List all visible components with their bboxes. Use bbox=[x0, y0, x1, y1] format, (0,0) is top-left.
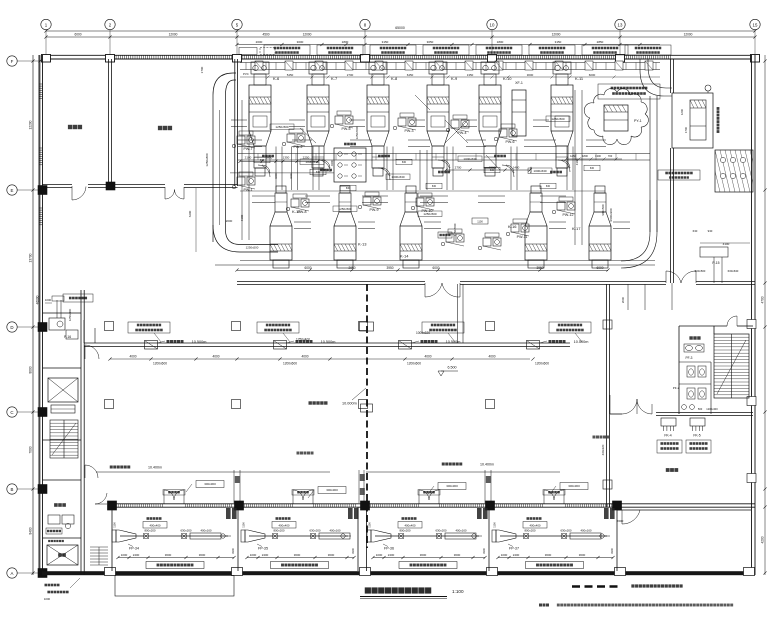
svg-text:2400: 2400 bbox=[513, 553, 520, 557]
svg-text:800x200: 800x200 bbox=[524, 529, 535, 533]
elevator shaft bbox=[48, 378, 78, 402]
svg-text:1350: 1350 bbox=[283, 156, 290, 160]
svg-text:1200x600: 1200x600 bbox=[153, 362, 167, 366]
right block small dims bbox=[627, 284, 629, 310]
svg-text:1850: 1850 bbox=[266, 156, 273, 160]
level mark 6.500 bbox=[438, 371, 444, 376]
svg-text:6000: 6000 bbox=[74, 33, 81, 37]
svg-text:PW-2: PW-2 bbox=[294, 145, 303, 149]
svg-text:PW-4: PW-4 bbox=[458, 131, 467, 135]
svg-text:630: 630 bbox=[546, 185, 551, 188]
vertical duct risers in hall bbox=[241, 100, 243, 240]
smoke shaft leader 10.000m bbox=[309, 401, 328, 404]
svg-text:6200: 6200 bbox=[188, 210, 192, 217]
svg-text:1800: 1800 bbox=[342, 40, 349, 44]
horizontal branch ducts lower bbox=[252, 195, 275, 197]
test room with fan coil FP-37 bbox=[500, 535, 607, 537]
svg-text:1700: 1700 bbox=[200, 66, 204, 73]
svg-text:430x320: 430x320 bbox=[601, 444, 605, 455]
svg-text:1000: 1000 bbox=[376, 553, 383, 557]
svg-text:1000x630: 1000x630 bbox=[463, 157, 477, 161]
svg-text:630x200: 630x200 bbox=[435, 529, 446, 533]
wall south of gas/pump rooms with doors bbox=[42, 184, 72, 186]
svg-text:K-6: K-6 bbox=[273, 76, 280, 81]
diagonal duct connectors bbox=[445, 120, 468, 143]
svg-text:9600x900: 9600x900 bbox=[609, 208, 613, 222]
svg-text:12000: 12000 bbox=[169, 33, 178, 37]
svg-text:1000x630: 1000x630 bbox=[305, 160, 319, 164]
svg-text:F: F bbox=[11, 59, 14, 64]
right block west wall bbox=[606, 284, 608, 507]
supply grille label boxes along top wall bbox=[264, 45, 310, 55]
svg-text:1200x600: 1200x600 bbox=[283, 362, 297, 366]
svg-text:630: 630 bbox=[346, 187, 351, 190]
hall bottom dimension row bbox=[215, 264, 655, 266]
svg-text:15: 15 bbox=[753, 22, 758, 27]
svg-text:K-7: K-7 bbox=[331, 76, 338, 81]
svg-text:PW-8: PW-8 bbox=[298, 210, 307, 214]
bottom band 10.400m supply duct bbox=[110, 466, 131, 469]
svg-text:630x200: 630x200 bbox=[309, 529, 320, 533]
svg-text:1000: 1000 bbox=[290, 173, 293, 179]
fan PW-3 bbox=[398, 118, 406, 126]
svg-text:1200x600: 1200x600 bbox=[535, 362, 549, 366]
svg-text:1000: 1000 bbox=[501, 553, 508, 557]
corridor south wall bbox=[656, 412, 753, 414]
corridor door jamb lines bbox=[671, 283, 673, 310]
svg-text:1200: 1200 bbox=[680, 108, 684, 115]
svg-text:K-14: K-14 bbox=[400, 254, 409, 259]
fan PW-11 bbox=[511, 224, 519, 232]
svg-text:1100: 1100 bbox=[493, 522, 497, 528]
room label pump room bbox=[158, 126, 172, 130]
svg-text:1000: 1000 bbox=[121, 553, 128, 557]
air handling unit K-8 bbox=[369, 62, 387, 74]
svg-text:1250x500: 1250x500 bbox=[338, 207, 352, 211]
fresh air unit XF-1 bbox=[512, 90, 526, 136]
svg-text:1250x800: 1250x800 bbox=[205, 153, 209, 167]
left strip partition walls bbox=[43, 312, 82, 314]
svg-text:3050: 3050 bbox=[427, 40, 434, 44]
fan PW-6 bbox=[499, 129, 507, 137]
zone text east bbox=[593, 436, 610, 439]
stair flight right block bbox=[714, 334, 749, 398]
svg-text:2400: 2400 bbox=[388, 553, 395, 557]
svg-text:1250x500: 1250x500 bbox=[551, 117, 565, 121]
top exterior wall with window mullions bbox=[42, 54, 755, 56]
svg-text:2050: 2050 bbox=[348, 266, 355, 270]
svg-text:2700: 2700 bbox=[347, 73, 354, 77]
svg-text:1250x400: 1250x400 bbox=[296, 338, 310, 342]
smoke exhaust shaft dashed line bbox=[366, 284, 368, 548]
fan PW-2 bbox=[287, 134, 295, 142]
svg-text:3600: 3600 bbox=[420, 553, 427, 557]
svg-text:3600: 3600 bbox=[579, 553, 586, 557]
svg-text:4300: 4300 bbox=[330, 159, 334, 166]
fan PW-12 bbox=[557, 202, 565, 210]
svg-text:8400: 8400 bbox=[29, 527, 33, 534]
svg-text:2600: 2600 bbox=[617, 519, 624, 523]
svg-text:4000: 4000 bbox=[301, 355, 308, 359]
svg-text:1250x500: 1250x500 bbox=[355, 126, 359, 139]
legend smoke shaft dashed symbol bbox=[572, 585, 618, 588]
svg-text:D: D bbox=[10, 325, 13, 330]
svg-text:PY-1: PY-1 bbox=[634, 119, 642, 123]
exhaust P-15 duct top right corridor bbox=[700, 247, 728, 257]
svg-text:3600: 3600 bbox=[294, 553, 301, 557]
air handling unit K-16 bbox=[531, 186, 541, 193]
svg-text:10.400m: 10.400m bbox=[148, 466, 162, 470]
fan PW-10 bbox=[416, 198, 424, 206]
svg-text:1000: 1000 bbox=[44, 597, 51, 601]
columns on top wall bbox=[42, 55, 51, 63]
extra fans south mid hall bbox=[446, 234, 454, 242]
doors of bottom rooms swinging north bbox=[163, 490, 165, 504]
air handling unit K-14 bbox=[406, 186, 416, 193]
svg-text:10.500m: 10.500m bbox=[321, 340, 336, 344]
svg-text:400x400: 400x400 bbox=[278, 524, 289, 528]
svg-text:2400: 2400 bbox=[262, 553, 269, 557]
svg-text:3600: 3600 bbox=[165, 553, 172, 557]
stair flight left bbox=[50, 420, 78, 458]
duct size labels in hall bbox=[300, 159, 324, 165]
svg-text:PW-11: PW-11 bbox=[517, 235, 528, 239]
svg-text:FP-37: FP-37 bbox=[509, 547, 519, 551]
svg-text:4700: 4700 bbox=[761, 296, 765, 303]
air handling unit K-13 bbox=[340, 186, 350, 193]
svg-text:4000: 4000 bbox=[424, 355, 431, 359]
svg-text:1250: 1250 bbox=[570, 154, 576, 158]
general note bbox=[539, 604, 549, 607]
bottom exterior wall bbox=[42, 571, 755, 575]
zone text pipe shaft area bbox=[297, 452, 314, 455]
svg-text:B: B bbox=[11, 487, 14, 492]
svg-text:1250x500: 1250x500 bbox=[246, 246, 259, 250]
svg-text:630: 630 bbox=[693, 229, 698, 233]
svg-text:4500: 4500 bbox=[262, 33, 269, 37]
svg-text:FP-34: FP-34 bbox=[129, 547, 139, 551]
svg-text:12000: 12000 bbox=[552, 33, 561, 37]
svg-text:4200: 4200 bbox=[761, 536, 765, 543]
svg-text:500: 500 bbox=[698, 407, 703, 411]
svg-text:10.500m: 10.500m bbox=[192, 340, 207, 344]
svg-text:1300: 1300 bbox=[595, 154, 601, 158]
svg-text:300x300: 300x300 bbox=[326, 488, 338, 492]
svg-text:630x200: 630x200 bbox=[560, 529, 571, 533]
air handling unit K-12 bbox=[276, 186, 286, 193]
svg-text:5450: 5450 bbox=[287, 73, 294, 77]
svg-text:A: A bbox=[11, 571, 14, 576]
fan PW-7 bbox=[237, 136, 245, 144]
svg-text:1100: 1100 bbox=[113, 522, 117, 528]
svg-text:630x200: 630x200 bbox=[180, 529, 191, 533]
svg-text:10.400m: 10.400m bbox=[480, 463, 494, 467]
fan PW-9 bbox=[363, 197, 371, 205]
drawing title bbox=[365, 587, 432, 593]
svg-text:4000: 4000 bbox=[129, 355, 136, 359]
svg-text:K-11: K-11 bbox=[575, 76, 584, 81]
svg-text:FP-36: FP-36 bbox=[384, 547, 394, 551]
pressurization fan room with PY unit bbox=[672, 93, 713, 148]
svg-text:1350: 1350 bbox=[467, 73, 474, 77]
svg-text:P-15: P-15 bbox=[712, 261, 719, 265]
svg-text:3150: 3150 bbox=[382, 40, 389, 44]
svg-text:400x400: 400x400 bbox=[529, 524, 540, 528]
svg-text:3300: 3300 bbox=[351, 548, 355, 554]
test room with fan coil FP-36 bbox=[375, 535, 479, 537]
svg-text:PF-2: PF-2 bbox=[673, 386, 680, 390]
hall interior dimension rows bbox=[240, 160, 318, 162]
svg-text:1200x400: 1200x400 bbox=[706, 407, 718, 411]
test room with fan coil FP-35 bbox=[249, 535, 348, 537]
svg-text:3300: 3300 bbox=[482, 548, 486, 554]
doors from left strip bbox=[85, 345, 99, 359]
svg-text:400x160: 400x160 bbox=[580, 529, 591, 533]
fresh air fans FK-4 FK-5 bbox=[661, 418, 676, 426]
svg-text:1800: 1800 bbox=[582, 154, 588, 158]
svg-text:3600: 3600 bbox=[545, 553, 552, 557]
svg-text:1250x400: 1250x400 bbox=[68, 308, 72, 321]
svg-text:FK-4: FK-4 bbox=[664, 434, 671, 438]
duct elbows in hall bbox=[262, 165, 270, 173]
grid dimension chain left bbox=[32, 55, 34, 575]
svg-text:2400: 2400 bbox=[133, 553, 140, 557]
notes below bottom-left wall bbox=[45, 584, 60, 587]
air handling unit K-7 bbox=[309, 62, 327, 74]
svg-text:3300: 3300 bbox=[610, 548, 614, 554]
svg-text:1250x500: 1250x500 bbox=[275, 125, 289, 129]
mid band dimension line bbox=[110, 358, 237, 360]
svg-text:FK-5: FK-5 bbox=[693, 434, 700, 438]
svg-text:1100: 1100 bbox=[242, 522, 246, 528]
svg-text:K-17: K-17 bbox=[572, 226, 581, 231]
svg-text:K-9: K-9 bbox=[451, 76, 458, 81]
svg-text:65000: 65000 bbox=[395, 26, 405, 30]
svg-text:1000: 1000 bbox=[275, 173, 278, 179]
room label gas-bottle room bbox=[68, 125, 82, 129]
stair pressurization fan P-16 bbox=[49, 318, 65, 330]
horizontal branch ducts upper bbox=[238, 139, 262, 141]
svg-text:3000: 3000 bbox=[297, 40, 304, 44]
svg-text:6.500: 6.500 bbox=[448, 366, 457, 370]
svg-text:1400: 1400 bbox=[513, 166, 520, 170]
svg-text:1700: 1700 bbox=[684, 126, 688, 133]
svg-text:3600: 3600 bbox=[454, 553, 461, 557]
svg-text:PW-7: PW-7 bbox=[244, 147, 253, 151]
label box near shaft bbox=[658, 170, 700, 180]
svg-text:500x500: 500x500 bbox=[695, 269, 706, 273]
svg-text:1000x630: 1000x630 bbox=[533, 169, 547, 173]
svg-text:4100: 4100 bbox=[723, 242, 730, 246]
svg-text:P-16: P-16 bbox=[64, 335, 71, 339]
riser labels 300x300 bbox=[196, 481, 224, 488]
air handling unit K-11 bbox=[553, 62, 571, 74]
short branch connectors per unit bbox=[231, 119, 247, 121]
svg-text:400x160: 400x160 bbox=[329, 529, 340, 533]
svg-text:1200x600: 1200x600 bbox=[407, 362, 421, 366]
duct risers below wall at partitions bbox=[226, 508, 231, 519]
svg-text:7000: 7000 bbox=[29, 446, 33, 453]
svg-text:1250x500: 1250x500 bbox=[423, 212, 437, 216]
svg-text:PW-1: PW-1 bbox=[244, 188, 253, 192]
extra small size tags mid hall bbox=[254, 157, 270, 163]
fan PW-5 bbox=[335, 116, 343, 124]
svg-text:10.000m: 10.000m bbox=[342, 402, 357, 406]
room label power distribution bbox=[666, 468, 678, 472]
small stair west of room FP-34 bbox=[90, 546, 108, 548]
svg-text:3600: 3600 bbox=[328, 553, 335, 557]
hall curved riser ducts east side bbox=[640, 59, 672, 96]
svg-text:6000: 6000 bbox=[596, 266, 603, 270]
washroom walls bbox=[678, 326, 680, 414]
bottom rooms north wall with windows bbox=[112, 503, 755, 505]
hall top distribution duct bbox=[240, 62, 660, 64]
svg-text:2100: 2100 bbox=[245, 156, 252, 160]
svg-text:12000: 12000 bbox=[684, 33, 693, 37]
svg-text:1800: 1800 bbox=[497, 40, 504, 44]
fan PW-1 bbox=[237, 177, 245, 185]
svg-text:4300: 4300 bbox=[240, 214, 244, 221]
hall vertical branch ducts bbox=[275, 147, 277, 191]
smoke exhaust fan PY-1 with revision cloud bbox=[584, 89, 648, 145]
test room with fan coil FP-34 bbox=[120, 535, 228, 537]
grid dimension chain top bbox=[46, 30, 755, 32]
svg-text:6000: 6000 bbox=[589, 73, 596, 77]
svg-text:3600: 3600 bbox=[199, 553, 206, 557]
svg-text:400x160: 400x160 bbox=[200, 529, 211, 533]
svg-text:1500: 1500 bbox=[489, 166, 496, 170]
svg-text:PVC: PVC bbox=[243, 72, 249, 76]
svg-text:12200: 12200 bbox=[29, 120, 33, 129]
svg-text:800x200: 800x200 bbox=[144, 529, 155, 533]
svg-text:C: C bbox=[10, 410, 13, 415]
svg-text:800x200: 800x200 bbox=[399, 529, 410, 533]
svg-text:XF-1: XF-1 bbox=[515, 81, 523, 85]
svg-text:10: 10 bbox=[490, 22, 495, 27]
left exterior wall bbox=[38, 55, 40, 575]
svg-text:630: 630 bbox=[590, 167, 595, 170]
svg-text:10.500m: 10.500m bbox=[446, 340, 461, 344]
svg-text:3950: 3950 bbox=[536, 266, 543, 270]
svg-text:300x300: 300x300 bbox=[568, 484, 580, 488]
svg-text:6000: 6000 bbox=[304, 266, 311, 270]
svg-text:PW-9: PW-9 bbox=[370, 208, 379, 212]
svg-text:900x500: 900x500 bbox=[601, 204, 605, 215]
pressurization grille label boxes mid band bbox=[128, 322, 170, 333]
air handling unit K-17 bbox=[595, 186, 605, 193]
svg-text:PF-3: PF-3 bbox=[686, 356, 693, 360]
svg-text:300x300: 300x300 bbox=[204, 482, 216, 486]
svg-text:PW-6: PW-6 bbox=[506, 140, 515, 144]
svg-text:13700: 13700 bbox=[29, 253, 33, 262]
svg-text:4000: 4000 bbox=[212, 355, 219, 359]
svg-text:1100: 1100 bbox=[368, 522, 372, 528]
hall mid corridor duct bbox=[238, 153, 650, 155]
svg-text:12000: 12000 bbox=[303, 33, 312, 37]
svg-text:K-10: K-10 bbox=[503, 76, 512, 81]
entrance canopy below bottom wall bbox=[115, 576, 234, 597]
floor opening with grilles bbox=[334, 148, 366, 182]
svg-text:1250x500: 1250x500 bbox=[453, 223, 457, 236]
svg-text:PW-12: PW-12 bbox=[563, 213, 574, 217]
bottom rooms partition walls bbox=[111, 507, 113, 571]
svg-text:630: 630 bbox=[490, 169, 495, 172]
wall between gas room and pump room bbox=[108, 59, 110, 186]
washroom fixtures bbox=[689, 336, 700, 339]
svg-text:FP-35: FP-35 bbox=[258, 547, 268, 551]
fan PW-4 bbox=[451, 120, 459, 128]
hall east wall bbox=[670, 59, 672, 93]
svg-text:3000: 3000 bbox=[527, 73, 534, 77]
svg-text:6000: 6000 bbox=[432, 266, 439, 270]
main corridor supply duct 10.500m bbox=[84, 342, 570, 344]
svg-text:400x400: 400x400 bbox=[404, 524, 415, 528]
svg-text:3150: 3150 bbox=[555, 40, 562, 44]
duct outlets with 10.500m level labels bbox=[145, 341, 158, 350]
hatched shaft room with vents bbox=[715, 150, 753, 192]
svg-text:4000: 4000 bbox=[488, 355, 495, 359]
svg-text:400x400: 400x400 bbox=[149, 524, 160, 528]
fan PW-8 bbox=[291, 199, 299, 207]
svg-text:1000x320: 1000x320 bbox=[416, 331, 430, 335]
svg-text:PW-5: PW-5 bbox=[342, 127, 351, 131]
svg-text:630x630: 630x630 bbox=[728, 269, 739, 273]
svg-text:630: 630 bbox=[402, 161, 407, 164]
main vertical supply duct in pump room bbox=[213, 73, 236, 95]
svg-text:3300: 3300 bbox=[231, 548, 235, 554]
right exterior wall bbox=[751, 55, 753, 575]
svg-text:1100: 1100 bbox=[477, 220, 483, 224]
svg-text:E: E bbox=[11, 188, 14, 193]
vertical riser ducts at partitions bbox=[233, 470, 235, 503]
small annotation blobs in hall bbox=[262, 155, 274, 158]
svg-text:K-8: K-8 bbox=[391, 76, 398, 81]
svg-text:2000: 2000 bbox=[621, 296, 625, 303]
svg-text:8000: 8000 bbox=[29, 366, 33, 373]
wall pump-room right bbox=[234, 59, 236, 186]
store room bbox=[47, 545, 78, 565]
dimension chain right bbox=[764, 55, 766, 575]
air handling unit K-6 bbox=[251, 62, 269, 74]
svg-text:2700: 2700 bbox=[455, 166, 462, 170]
svg-text:3950: 3950 bbox=[386, 266, 393, 270]
svg-text:1000: 1000 bbox=[250, 553, 257, 557]
svg-text:2000: 2000 bbox=[226, 219, 233, 223]
svg-text:K-13: K-13 bbox=[358, 242, 367, 247]
svg-text:PW-3: PW-3 bbox=[405, 129, 414, 133]
air handling unit K-9 bbox=[429, 62, 447, 74]
free-standing columns in open hall bbox=[105, 322, 114, 331]
svg-text:13: 13 bbox=[618, 22, 623, 27]
svg-text:2850: 2850 bbox=[597, 40, 604, 44]
svg-text:300x300: 300x300 bbox=[446, 484, 458, 488]
left strip corridor wall bbox=[80, 290, 82, 575]
svg-text:700: 700 bbox=[608, 154, 613, 158]
svg-text:6450: 6450 bbox=[407, 73, 414, 77]
svg-text:2000: 2000 bbox=[256, 40, 263, 44]
svg-text:630: 630 bbox=[432, 185, 437, 188]
svg-text:800x200: 800x200 bbox=[273, 529, 284, 533]
svg-text:400x160: 400x160 bbox=[455, 529, 466, 533]
svg-text:930: 930 bbox=[708, 229, 713, 233]
svg-text:1000: 1000 bbox=[45, 298, 52, 302]
distribution room with small fans bbox=[54, 503, 66, 507]
air handling unit K-10 bbox=[481, 62, 499, 74]
hall south wall with double doors bbox=[237, 281, 425, 283]
svg-text:1000x630: 1000x630 bbox=[391, 175, 405, 179]
svg-text:1:100: 1:100 bbox=[452, 589, 464, 594]
svg-text:K-16: K-16 bbox=[508, 224, 517, 229]
